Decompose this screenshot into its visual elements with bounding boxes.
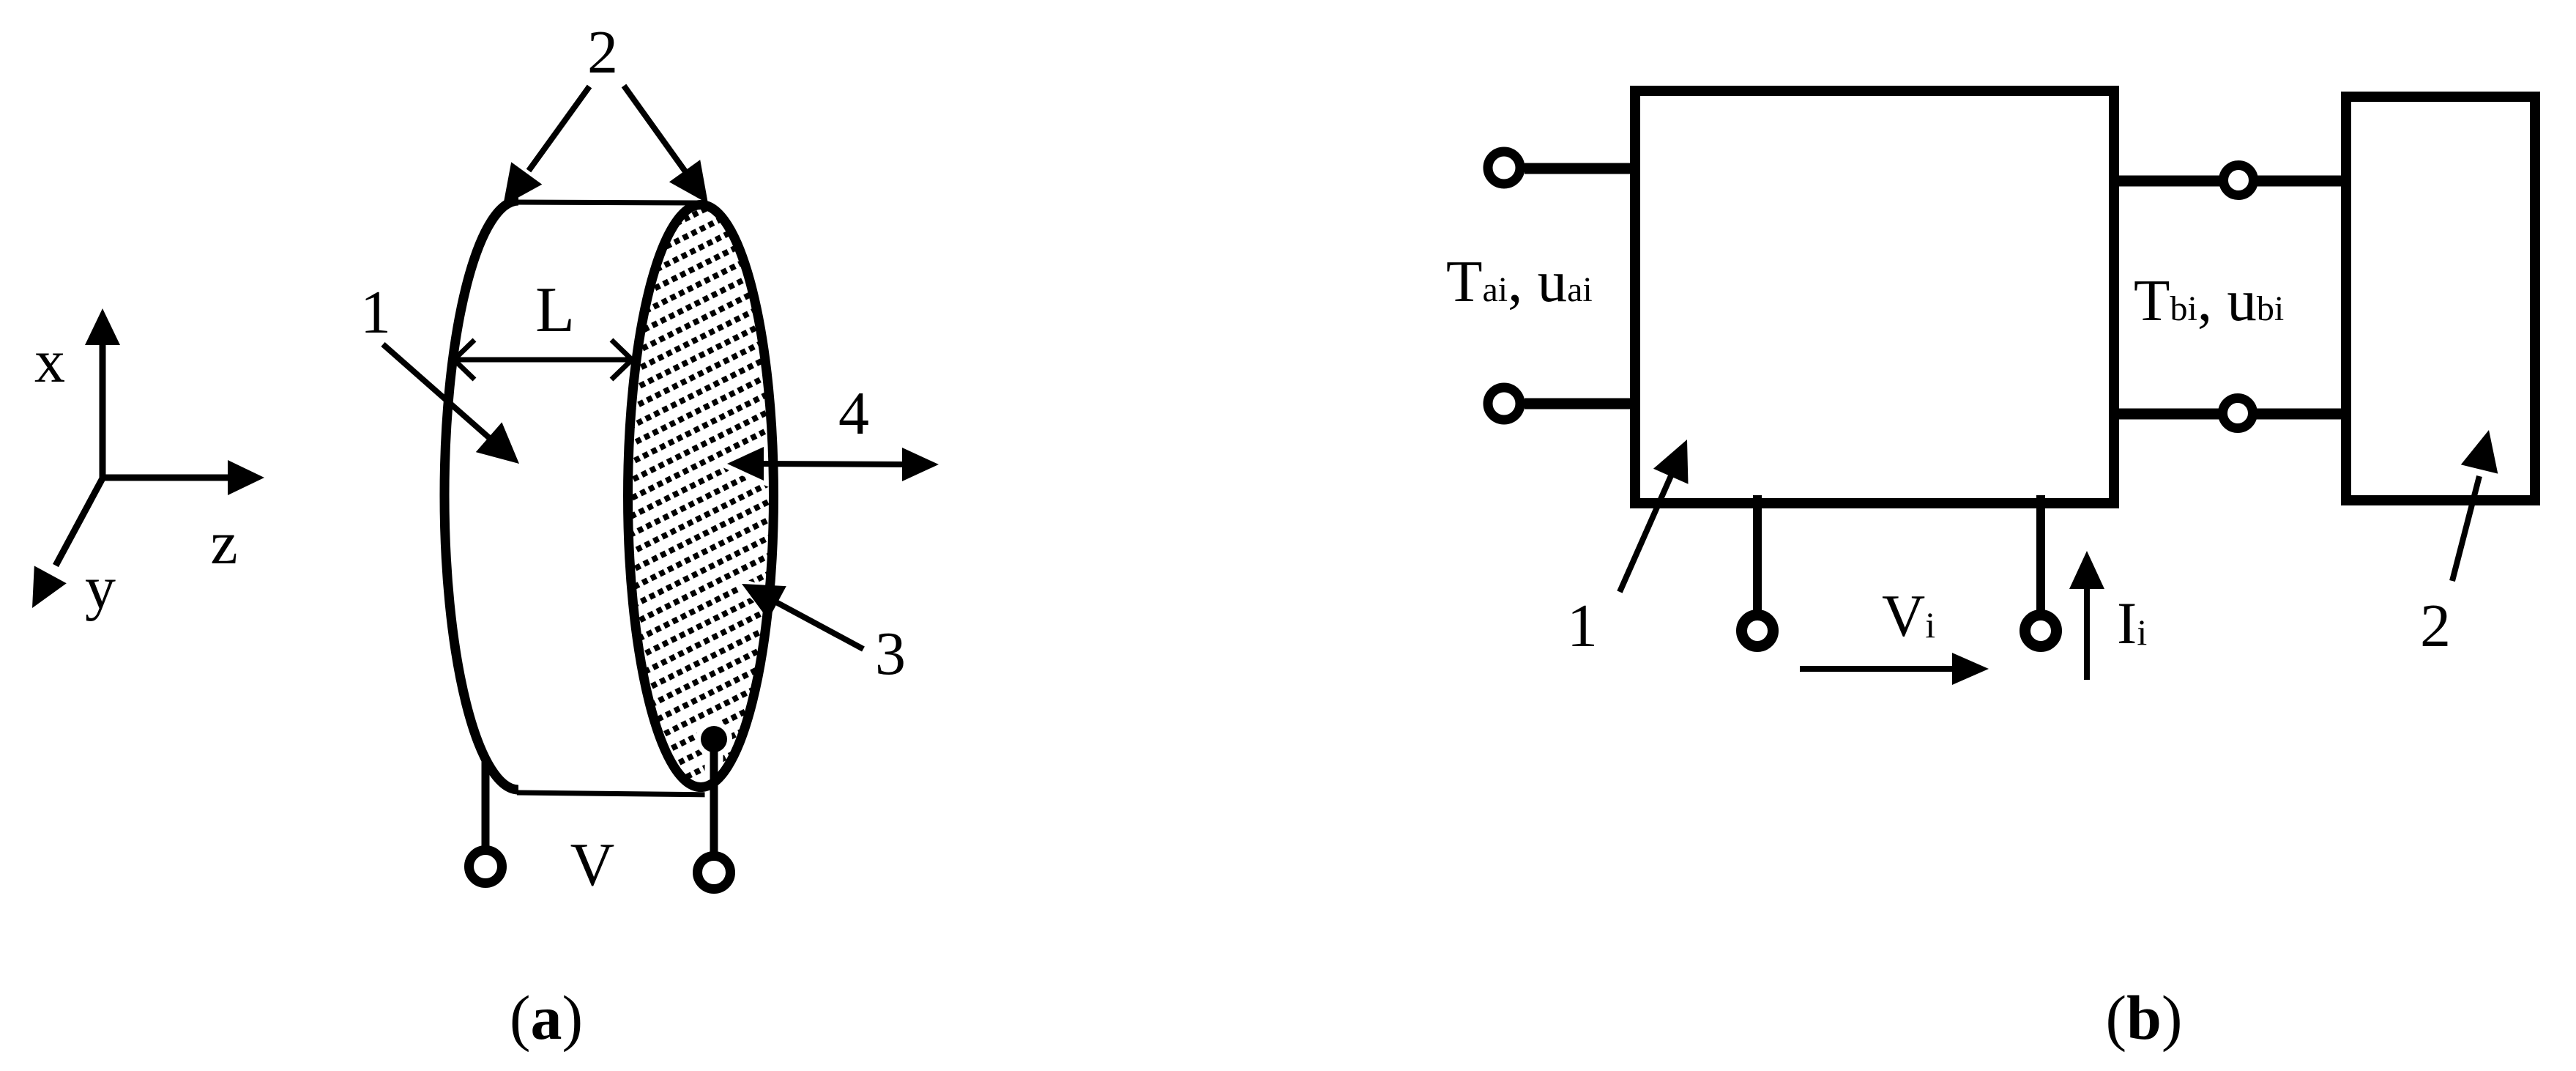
left terminal lead: [482, 757, 490, 847]
bottom right terminal circle: [2025, 615, 2057, 647]
arrow to block 1: [1620, 466, 1675, 592]
block 2 (load box): [2346, 97, 2535, 500]
svg-text:1: 1: [360, 278, 391, 346]
bottom left lead: [1753, 495, 1762, 611]
arrow 2-right: [624, 86, 687, 174]
disc right face hatch fill: [628, 205, 774, 787]
svg-text:(a): (a): [510, 982, 583, 1053]
arrow Vi: [1800, 666, 1955, 672]
left lower terminal circle: [1488, 388, 1520, 420]
x axis: [100, 341, 106, 478]
svg-text:1: 1: [1567, 592, 1598, 660]
hatch clearing under arrow 3: [742, 584, 780, 613]
svg-text:z: z: [210, 509, 237, 577]
disc bottom edge: [517, 793, 719, 795]
block 1 (transducer two-port box): [1635, 91, 2114, 503]
left upper terminal lead: [1525, 163, 1635, 174]
arrow 1: [383, 344, 493, 441]
right upper node circle: [2224, 166, 2254, 196]
bottom right lead: [2036, 495, 2045, 611]
svg-text:2: 2: [587, 18, 618, 86]
svg-text:3: 3: [875, 620, 906, 688]
arrow 3: [776, 602, 863, 649]
right lower node circle: [2223, 399, 2253, 429]
right lower wire: [2119, 409, 2341, 420]
z axis: [103, 475, 231, 481]
svg-text:2: 2: [2420, 592, 2451, 660]
right terminal circle: [698, 856, 731, 889]
disc top edge: [515, 202, 701, 203]
svg-text:L: L: [535, 275, 575, 346]
svg-text:x: x: [34, 327, 65, 396]
disc left face arc: [444, 201, 518, 790]
svg-text:y: y: [85, 554, 116, 622]
right upper wire: [2119, 176, 2341, 187]
right terminal lead: [710, 739, 718, 852]
y axis: [56, 478, 103, 566]
left upper terminal circle: [1488, 152, 1520, 184]
arrow to block 2: [2452, 476, 2479, 581]
double arrow 4: [758, 464, 908, 464]
disc right face outline: [628, 205, 774, 787]
dimension line L: [454, 357, 632, 363]
bottom left terminal circle: [1742, 615, 1773, 647]
left lower terminal lead: [1525, 399, 1635, 409]
hatch clearing under contact dot and lead: [696, 721, 732, 757]
left terminal circle: [469, 850, 502, 883]
svg-text:(b): (b): [2105, 982, 2182, 1053]
hatch clearing under arrow 4: [729, 455, 787, 472]
svg-text:V: V: [570, 831, 615, 899]
arrow 2-left: [529, 86, 589, 171]
svg-text:4: 4: [838, 379, 869, 448]
electrode contact dot: [701, 726, 727, 752]
arrow Ii: [2084, 586, 2090, 680]
